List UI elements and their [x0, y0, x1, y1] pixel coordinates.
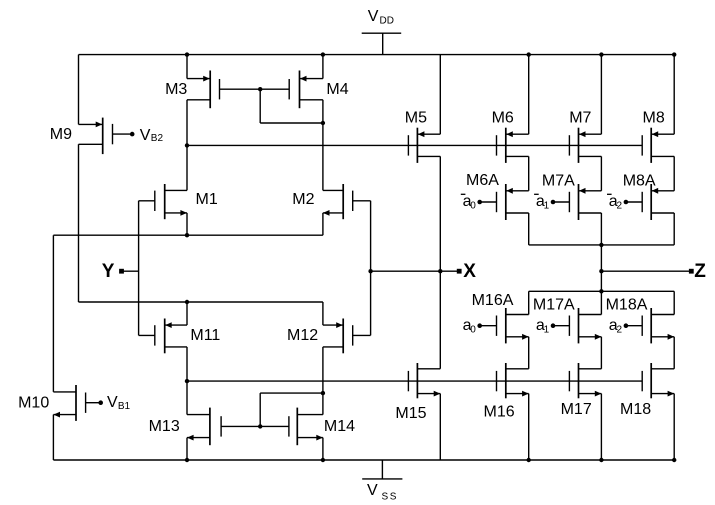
wire M18 source to bottom rail — [673, 394, 675, 460]
svg-text:M2: M2 — [292, 191, 314, 208]
node cascode gate tap (M5-M8 gate line) — [185, 143, 189, 147]
node X on gate vertical — [368, 269, 372, 273]
label M7A — [542, 172, 575, 189]
transistor M16A — [480, 308, 529, 343]
wire M3 drain to M1 drain — [186, 100, 188, 191]
wire M17A drain up to Z collection wire — [600, 291, 602, 314]
digital input terminal a2 — [609, 317, 628, 335]
svg-text:M7A: M7A — [542, 172, 575, 189]
wire M15 source to bottom rail — [439, 394, 441, 460]
transistor M4 — [289, 71, 323, 109]
wire M4 source from top rail — [322, 55, 324, 79]
wire M16A source to M16 drain — [528, 337, 530, 369]
node top rail M3 junction — [185, 52, 189, 56]
wire M8 source from top rail — [673, 55, 675, 135]
transistor M12 — [323, 319, 371, 354]
svg-text:Z: Z — [694, 261, 706, 282]
svg-text:V: V — [367, 482, 378, 499]
transistor M13 — [187, 408, 221, 446]
label M17 — [561, 401, 592, 418]
wire M7 source from top rail — [600, 55, 602, 135]
node top rail M4 junction — [321, 52, 325, 56]
svg-text:M15: M15 — [395, 405, 426, 422]
label M16 — [484, 404, 515, 421]
terminal Y — [102, 261, 139, 282]
label M11 — [190, 327, 220, 344]
wire M8 drain to M8A source — [673, 156, 675, 190]
wire Z column vertical — [600, 245, 602, 291]
node tail2-M11 junction — [185, 300, 189, 304]
node diode connect on M4 drain — [321, 121, 325, 125]
node top rail M8 junction — [672, 52, 676, 56]
power VSS symbol — [362, 460, 402, 502]
node bottom rail M17 junction — [599, 458, 603, 462]
wire M13 source to bottom rail — [186, 438, 188, 460]
wire Z line — [601, 270, 691, 272]
svg-text:M10: M10 — [18, 395, 49, 412]
svg-text:B2: B2 — [151, 133, 164, 144]
transistor M15 — [408, 363, 440, 398]
wire M14 source to bottom rail — [322, 438, 324, 460]
svg-text:X: X — [463, 261, 476, 282]
svg-text:M17: M17 — [561, 401, 592, 418]
wire M6 source from top rail — [528, 55, 530, 135]
svg-text:M12: M12 — [287, 327, 318, 344]
transistor M6 — [497, 128, 529, 163]
transistor M8 — [642, 128, 674, 163]
node bottom rail M18 junction — [672, 458, 676, 462]
wire M6A drain down to Z collection wire — [528, 213, 530, 245]
label M4 — [326, 81, 348, 98]
wire VSS bottom rail — [53, 459, 674, 461]
label M8 — [643, 109, 665, 126]
wire M9 drain down to tail rail 2 — [78, 144, 80, 302]
wire M5 source from top rail — [439, 55, 441, 135]
transistor M1 — [139, 184, 187, 219]
wire Z bottom collection — [529, 290, 675, 292]
wire M1 source to tail rail 1 — [186, 213, 188, 235]
node cascode gate tap (M15-M18 gate line) — [185, 379, 189, 383]
wire M8A drain down to Z collection wire — [673, 213, 675, 245]
label M1 — [196, 191, 218, 208]
svg-text:M16A: M16A — [472, 292, 514, 309]
wire tail rail 1 (M1/M2 sources) — [53, 234, 323, 236]
svg-text:V: V — [107, 394, 118, 411]
digital input terminal a1 (inverted) — [534, 193, 555, 211]
node bottom rail M13 junction — [185, 458, 189, 462]
svg-text:M1: M1 — [196, 191, 218, 208]
label M6A — [466, 172, 499, 189]
wire M12 drain to M14 drain — [322, 347, 324, 415]
wire M18A source to M18 drain — [673, 337, 675, 369]
transistor M5 — [408, 128, 440, 163]
svg-text:M11: M11 — [190, 327, 220, 344]
wire tail rail 2 to M11 source — [186, 302, 188, 325]
svg-text:M8: M8 — [643, 109, 665, 126]
label M10 — [18, 395, 49, 412]
label M13 — [149, 418, 180, 435]
wire M17A source to M17 drain — [600, 337, 602, 369]
node Z top collection junction — [599, 243, 603, 247]
svg-text:B1: B1 — [118, 401, 131, 412]
label M5 — [405, 109, 427, 126]
transistor M18A — [626, 308, 674, 343]
wire M9 source from top rail — [78, 55, 80, 125]
wire X gate vertical (M2/M12 gates) — [370, 201, 372, 336]
transistor M14 — [289, 408, 323, 446]
wire gate line M15-M18 — [187, 380, 642, 382]
wire tail rail 2 to M12 source — [322, 302, 324, 325]
wire gate to M4 drain (diode connection) — [260, 89, 323, 123]
svg-text:M16: M16 — [484, 404, 515, 421]
transistor M11 — [139, 319, 187, 354]
terminal X — [457, 261, 477, 282]
label M6 — [492, 109, 514, 126]
wire VDD top rail — [79, 54, 675, 56]
transistor M6A — [480, 184, 529, 220]
svg-text:M5: M5 — [405, 109, 427, 126]
wire M10 source to bottom rail — [52, 415, 54, 460]
wire tail rail 1 down to M10 drain — [52, 235, 54, 392]
wire X line — [371, 270, 460, 272]
wire M4 drain to M2 drain — [322, 100, 324, 191]
digital input terminal a1 — [536, 317, 555, 335]
wire M16A drain up to Z collection wire — [528, 291, 530, 314]
node Z tap — [599, 269, 603, 273]
svg-text:M9: M9 — [50, 126, 72, 143]
node M13/M14 gate junction — [258, 424, 262, 428]
svg-text:M8A: M8A — [623, 172, 656, 189]
node diode connect on M14 drain — [321, 391, 325, 395]
label M3 — [165, 81, 187, 98]
svg-text:2: 2 — [617, 201, 623, 212]
node Z bottom collection junction — [599, 289, 603, 293]
svg-text:M6: M6 — [492, 109, 514, 126]
wire M17 source to bottom rail — [600, 394, 602, 460]
wire M6 drain to M6A source — [528, 156, 530, 190]
digital input terminal a2 (inverted) — [607, 193, 628, 211]
label M18A — [606, 297, 648, 314]
node X on M5/M15 column — [438, 269, 442, 273]
transistor M18 — [642, 363, 674, 398]
node top rail M6 junction — [527, 52, 531, 56]
wire tail rail 2 (M11/M12 sources) — [79, 301, 323, 303]
wire M2 source to tail rail 1 — [322, 213, 324, 235]
wire M5 drain to M15 drain (X column) — [439, 156, 441, 368]
wire M3 source from top rail — [186, 55, 188, 79]
label M2 — [292, 191, 314, 208]
label M14 — [324, 418, 355, 435]
transistor M7A — [553, 184, 601, 220]
svg-text:1: 1 — [544, 201, 550, 212]
power VDD symbol — [362, 8, 402, 54]
label M12 — [287, 327, 318, 344]
node bottom rail M16 junction — [527, 458, 531, 462]
svg-text:M18: M18 — [620, 401, 651, 418]
node M3/M4 gate junction — [258, 87, 262, 91]
wire M16 source to bottom rail — [528, 394, 530, 460]
transistor M2 — [323, 184, 371, 219]
svg-text:DD: DD — [380, 16, 394, 27]
transistor M16 — [497, 363, 529, 398]
node bottom rail M14 junction — [321, 458, 325, 462]
wire M7A drain down to Z collection wire — [600, 213, 602, 245]
wire gate line M5-M8 — [187, 144, 642, 146]
svg-text:M14: M14 — [324, 418, 355, 435]
transistor M8A — [626, 184, 674, 220]
transistor M3 — [187, 71, 220, 109]
wire Y gate vertical (M1/M11 gates) — [138, 201, 140, 336]
bias terminal VB1 — [98, 394, 130, 412]
transistor M9 — [79, 118, 131, 155]
label M9 — [50, 126, 72, 143]
bias terminal VB2 — [130, 127, 164, 144]
svg-text:1: 1 — [544, 324, 550, 335]
label M8A — [623, 172, 656, 189]
digital input terminal a0 — [463, 317, 482, 335]
svg-text:Y: Y — [102, 261, 115, 282]
terminal Z — [689, 261, 706, 282]
svg-text:M13: M13 — [149, 418, 180, 435]
wire M3-M4 gate line — [220, 88, 290, 90]
label M15 — [395, 405, 426, 422]
wire Z top collection — [529, 244, 675, 246]
label M7 — [569, 109, 591, 126]
svg-text:M4: M4 — [326, 81, 348, 98]
node top rail M7 junction — [599, 52, 603, 56]
wire M11 drain to M13 drain — [186, 347, 188, 415]
svg-text:M6A: M6A — [466, 172, 499, 189]
digital input terminal a0 (inverted) — [461, 193, 482, 211]
svg-text:V: V — [368, 8, 379, 25]
svg-text:V: V — [140, 127, 151, 144]
svg-text:M17A: M17A — [533, 297, 575, 314]
wire M13-M14 gate line — [221, 425, 289, 427]
svg-text:0: 0 — [470, 201, 476, 212]
label M17A — [533, 297, 575, 314]
svg-text:2: 2 — [617, 324, 623, 335]
transistor M7 — [569, 128, 601, 163]
wire M18A drain up to Z collection wire — [673, 291, 675, 314]
label M16A — [472, 292, 514, 309]
transistor M10 — [53, 385, 98, 421]
svg-text:M7: M7 — [569, 109, 591, 126]
transistor M17A — [553, 308, 601, 343]
wire M7 drain to M7A source — [600, 156, 602, 190]
svg-text:M3: M3 — [165, 81, 187, 98]
node tail1-M1 junction — [185, 233, 189, 237]
label M18 — [620, 401, 651, 418]
wire gate to M14 drain (diode connection) — [260, 393, 323, 426]
svg-text:0: 0 — [470, 324, 476, 335]
transistor M17 — [569, 363, 601, 398]
svg-text:M18A: M18A — [606, 297, 648, 314]
svg-text:SS: SS — [382, 491, 399, 500]
